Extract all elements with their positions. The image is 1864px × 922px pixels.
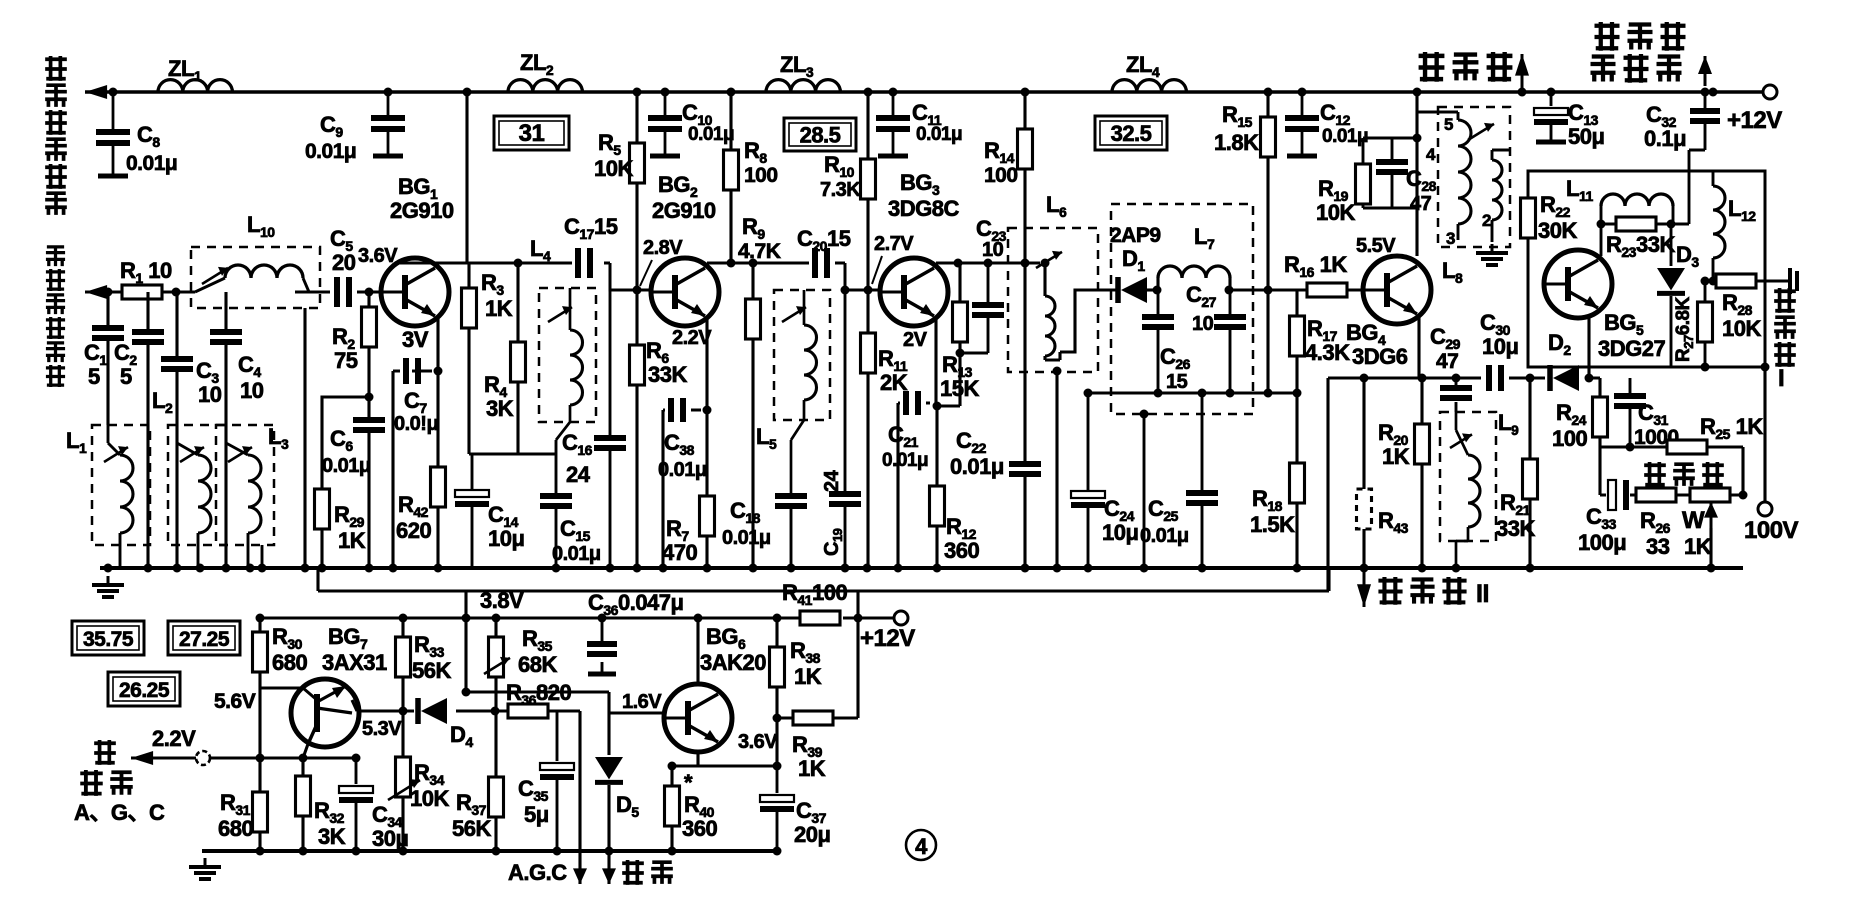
wire BG3 emitter (898, 318, 936, 568)
wire top feed x467 (465, 92, 468, 263)
wire base step BG3 (845, 263, 881, 290)
label 对比度 (contrast) (1644, 462, 1724, 487)
wire R34 column (401, 711, 404, 851)
wiper arrow W (1704, 502, 1718, 528)
wire BG4 emitter (1417, 314, 1420, 378)
label 脉冲 (pulse) (622, 860, 673, 885)
capacitor C8 (96, 92, 130, 176)
resistor R21 (1523, 459, 1538, 499)
capacitor C34 (339, 786, 373, 800)
wire x1328 drop (1326, 378, 1329, 591)
resistor R15 (1261, 117, 1276, 157)
resistor R27 (1698, 302, 1713, 342)
wire C14 column (471, 454, 474, 568)
svg-text:26.25: 26.25 (119, 679, 170, 702)
svg-text:4.7K: 4.7K (738, 240, 781, 263)
svg-text:0.01μ: 0.01μ (552, 543, 601, 565)
svg-text:20μ: 20μ (794, 822, 830, 847)
svg-text:680: 680 (218, 816, 253, 841)
svg-text:2: 2 (1482, 211, 1491, 230)
capacitor C31 (1614, 396, 1646, 406)
inductor ZL2 (508, 80, 582, 92)
diode D1 2AP9 (1118, 277, 1147, 303)
arrow sound output (1515, 54, 1529, 90)
wire R21 column (1528, 378, 1531, 568)
svg-text:10: 10 (240, 378, 264, 403)
wire BG6 emitter (672, 752, 777, 766)
wire bottom ground bus (202, 849, 780, 853)
wire BG6 collector (696, 618, 699, 685)
capacitor C9 (371, 92, 405, 156)
capacitor C37 (760, 795, 794, 809)
svg-text:1.8K: 1.8K (1214, 130, 1259, 155)
wire R2 column (367, 292, 370, 397)
svg-text:R16 1K: R16 1K (1284, 252, 1347, 280)
wire wiper to gnd (1709, 528, 1712, 568)
wire D5 column (607, 713, 610, 884)
wire R5 column (635, 92, 638, 290)
capacitor C6 (353, 420, 385, 430)
resistor R24 (1593, 397, 1608, 437)
svg-text:15: 15 (1166, 371, 1188, 393)
capacitor C35 (540, 763, 574, 777)
wire R29 branch (322, 397, 369, 489)
transistor BG7 3AX31 (291, 679, 359, 747)
capacitor C2 (132, 332, 164, 342)
wire C34 column (355, 758, 358, 851)
svg-text:620: 620 (396, 518, 431, 543)
wire BG7 collector (352, 700, 580, 711)
arrow AGC (573, 858, 587, 884)
svg-text:2G910: 2G910 (390, 198, 454, 223)
frequency box 32.5 (1095, 116, 1167, 150)
resistor R36 (508, 704, 548, 718)
arrow to sync II (1357, 569, 1371, 607)
svg-text:2V: 2V (903, 329, 928, 351)
resistor R35 (489, 637, 504, 677)
inductor L11 (1601, 194, 1673, 206)
wire R10 column (866, 92, 869, 290)
capacitor C33 plates (1608, 480, 1626, 510)
svg-text:33K: 33K (1496, 516, 1535, 541)
diode D3 (1657, 268, 1685, 293)
svg-text:20: 20 (332, 250, 356, 275)
capacitor C24 (1071, 491, 1105, 505)
resistor R9 (746, 299, 761, 339)
wire C16 column (609, 290, 612, 568)
svg-text:0.0!μ: 0.0!μ (394, 413, 438, 435)
wire top +12V bus (85, 90, 1766, 93)
svg-text:24: 24 (566, 462, 591, 487)
wire R11 column (866, 290, 869, 568)
wire AGC out (131, 756, 356, 759)
svg-text:10μ: 10μ (1482, 334, 1518, 359)
capacitor C27 (1214, 317, 1246, 327)
shield box L5 (774, 290, 830, 420)
wire 12V drop x858 (856, 591, 859, 618)
capacitor C25 (1186, 493, 1218, 503)
svg-text:I: I (1778, 365, 1784, 392)
capacitor C36 (587, 644, 617, 654)
wire R18 column (1295, 393, 1298, 568)
trimmer L6 (1036, 251, 1062, 268)
svg-text:10: 10 (1192, 313, 1214, 335)
svg-text:33: 33 (1646, 534, 1670, 559)
wire BG5 emitter (1587, 317, 1590, 378)
wire R14 column (1023, 92, 1026, 568)
terminal 100V (1758, 502, 1772, 516)
capacitor C26 (1142, 317, 1174, 327)
inductor L12 (1713, 186, 1725, 258)
wire C26 column (1157, 290, 1160, 393)
resistor R26 (1636, 488, 1676, 502)
svg-text:0.01μ: 0.01μ (1322, 126, 1368, 147)
trimmer L10 (202, 267, 228, 284)
svg-text:50μ: 50μ (1568, 124, 1604, 149)
inductor ZL3 (766, 80, 840, 92)
svg-text:10: 10 (198, 382, 222, 407)
wire L8 pin3 lead (1457, 224, 1460, 240)
shield box L2 (168, 425, 226, 545)
wire R35 column (494, 618, 497, 711)
resistor R14 (1018, 129, 1033, 169)
svg-text:1K: 1K (485, 296, 513, 321)
resistor R23 (1616, 217, 1656, 231)
resistor R34 (396, 757, 411, 797)
wire R17 column (1295, 290, 1298, 393)
resistor R8 (724, 150, 739, 190)
resistor R11 (861, 333, 876, 373)
capacitor C15 (540, 496, 572, 506)
wire L7 ends (1158, 278, 1230, 290)
trimmer L5 (782, 306, 806, 322)
resistor R19 (1356, 164, 1371, 204)
capacitor C17 (578, 248, 590, 278)
trimmer L4 (548, 306, 572, 322)
wire emitter net BG1 (469, 452, 556, 455)
wire D3 column (1670, 224, 1673, 367)
wire C28 branch (1391, 138, 1394, 208)
svg-text:0.01μ: 0.01μ (1140, 525, 1189, 547)
wire L10 cold end (303, 308, 306, 568)
capacitor C4 (210, 332, 242, 342)
resistor R10 (861, 159, 876, 199)
svg-text:2G910: 2G910 (652, 198, 716, 223)
svg-text:10μ: 10μ (488, 526, 524, 551)
capacitor C12 (1285, 92, 1319, 156)
resistor R16 (1307, 283, 1347, 297)
junction dots mid networks (365, 134, 1770, 697)
label 管阴极 (CRT cathode) row2 (1591, 54, 1682, 83)
resistor R41 (800, 611, 840, 625)
resistor R25 (1667, 440, 1707, 454)
capacitor C7 (406, 358, 418, 384)
wire BG1 collector (400, 263, 610, 268)
trimmer L2 (180, 446, 204, 462)
wire R42 column (436, 371, 439, 568)
wire C23 column (960, 263, 988, 353)
svg-text:R2333K: R2333K (1606, 232, 1675, 260)
svg-text:R1 10: R1 10 (120, 258, 172, 286)
svg-text:2AP9: 2AP9 (1110, 224, 1161, 247)
capacitor C10 (648, 92, 682, 156)
svg-text:4: 4 (1426, 145, 1436, 164)
inductor L3 (248, 455, 261, 533)
svg-text:100μ: 100μ (1578, 530, 1626, 555)
svg-text:5: 5 (88, 364, 100, 389)
wire R30 column (260, 618, 303, 688)
wire BG3 collector (936, 263, 1040, 268)
capacitor C28 (1376, 162, 1408, 172)
wire R8 column (729, 92, 732, 263)
svg-text:360: 360 (944, 538, 979, 563)
wire C31 column (1629, 378, 1632, 447)
wire L6 routing (1045, 263, 1116, 360)
svg-text:47: 47 (1436, 350, 1458, 373)
capacitor C32 (1690, 111, 1720, 121)
svg-text:10: 10 (982, 239, 1004, 261)
arrow pulse (602, 858, 616, 884)
svg-text:68K: 68K (518, 652, 557, 677)
wire C5 to base (357, 291, 381, 294)
resistor R40 (665, 786, 680, 826)
junction dots signal/base wires (104, 259, 1273, 297)
trimmer L1 (104, 446, 128, 462)
wire R27 column (1704, 281, 1707, 367)
resistor R6 (630, 345, 645, 385)
wire contrast row2 (1600, 493, 1743, 496)
wire BG6 base (466, 692, 664, 713)
wire R6 column (635, 290, 638, 568)
wire R15 column (1266, 92, 1269, 393)
wire C24 column (1087, 393, 1090, 568)
capacitor C16 (594, 438, 626, 448)
junction dots bottom section (256, 614, 782, 856)
wire C35 column (556, 711, 559, 851)
svg-text:0.01μ: 0.01μ (688, 124, 734, 145)
block frame BG5 (1528, 171, 1765, 367)
wire C36 column (601, 618, 604, 672)
wire C1 column (106, 292, 109, 425)
capacitor C20 (815, 248, 827, 278)
wire R20 column (1420, 378, 1423, 568)
inductor L6 (1045, 296, 1055, 356)
wire L8 pin5 lead (1417, 112, 1458, 120)
wire shield stub (1143, 414, 1146, 568)
transistor BG5 3DG27 (1544, 250, 1612, 318)
svg-text:100: 100 (984, 164, 1018, 187)
svg-text:0.01μ: 0.01μ (658, 459, 707, 481)
inductor L7 (1158, 266, 1230, 278)
transistor BG2 2G910 (651, 258, 719, 326)
svg-text:3AK20: 3AK20 (700, 650, 766, 675)
wire bottom +12V rail (260, 617, 894, 620)
resistor R22 (1521, 198, 1536, 238)
resistor R30 (253, 632, 268, 672)
junction dots ground bus (104, 564, 1716, 573)
potentiometer W (1690, 488, 1730, 502)
capacitor C14 (455, 490, 489, 504)
svg-text:0.01μ: 0.01μ (322, 455, 371, 477)
wire C29 column (1455, 378, 1458, 412)
svg-text:0.1μ: 0.1μ (1644, 126, 1686, 151)
wire R28 row (1705, 280, 1790, 283)
svg-text:W: W (1682, 507, 1705, 534)
frequency box 27.25 (168, 621, 240, 655)
svg-text:R36820: R36820 (506, 680, 571, 708)
wire base step BG2 (610, 263, 652, 290)
svg-text:1K: 1K (338, 528, 366, 553)
wire D1 to L7 (1146, 288, 1158, 291)
svg-text:0.01μ: 0.01μ (882, 450, 928, 471)
svg-text:3.6V: 3.6V (738, 731, 778, 753)
svg-text:24: 24 (821, 469, 843, 492)
svg-text:R276.8K: R276.8K (1673, 296, 1696, 362)
shield box L4 (539, 288, 596, 422)
inductor L2 (198, 455, 211, 533)
svg-text:3: 3 (1446, 229, 1455, 248)
shield box L9 (1440, 412, 1496, 541)
wire R39 row (777, 618, 858, 718)
wire C27 column (1229, 290, 1232, 393)
resistor R12 (930, 486, 945, 526)
label 至显象 (to CRT) row1 (1595, 22, 1686, 51)
resistor R33 (396, 637, 411, 677)
svg-text:1.5K: 1.5K (1250, 512, 1295, 537)
label 至同步 (to sync II) (1378, 577, 1466, 605)
T-bar C36 (588, 672, 616, 677)
svg-text:5.3V: 5.3V (362, 718, 402, 740)
wire C18 to gnd (790, 506, 793, 568)
svg-text:+12V: +12V (860, 625, 915, 652)
svg-text:4: 4 (915, 834, 928, 859)
svg-text:100: 100 (1552, 426, 1587, 451)
svg-text:3K: 3K (486, 396, 514, 421)
inductor L9 (1468, 455, 1480, 527)
svg-text:10K: 10K (594, 156, 633, 181)
frequency box 26.25 (108, 672, 180, 706)
capacitor C1 (92, 328, 124, 338)
svg-text:0.01μ: 0.01μ (950, 454, 1004, 479)
wire BG2 emitter (663, 318, 707, 568)
svg-text:0.01μ: 0.01μ (722, 527, 771, 549)
capacitor C23 (972, 305, 1004, 315)
svg-text:1K: 1K (798, 756, 826, 781)
svg-text:47: 47 (1410, 193, 1432, 215)
resistor R42 (431, 467, 446, 507)
wire L11 to BG5 collector (1600, 224, 1603, 256)
arrow to tuner supply (85, 85, 111, 99)
transistor BG1 2G910 (381, 258, 449, 326)
ground symbol left (92, 576, 124, 597)
wire sound output stub (1521, 90, 1524, 92)
resistor R1 (122, 285, 162, 299)
wire R43 column (1362, 378, 1365, 568)
transistor BG4 3DG6 (1363, 256, 1431, 324)
svg-text:10K: 10K (410, 786, 449, 811)
resistor R3 (462, 288, 477, 328)
wire C32 column (1689, 92, 1705, 224)
terminal +12V bottom (894, 611, 908, 625)
trimmer L9 (1450, 433, 1472, 448)
volt pointer 2.7V (872, 256, 882, 284)
trimmer L8 (1468, 123, 1494, 140)
wire L1 bottom (108, 425, 120, 568)
capacitor C29 (1440, 388, 1472, 398)
capacitor C3 (161, 359, 193, 369)
resistor R7 (700, 496, 715, 536)
shield box 2AP9 detector (1111, 204, 1253, 414)
wire L7 output (1230, 289, 1363, 292)
resistor R32 (296, 776, 311, 816)
wire C3 column (175, 292, 178, 568)
svg-text:5: 5 (1444, 115, 1453, 134)
wire C15 column (555, 440, 558, 568)
capacitor C21 (906, 391, 918, 415)
wire R31 column (258, 688, 261, 851)
resistor R28 (1716, 274, 1756, 288)
svg-text:3V: 3V (402, 327, 429, 352)
wire R9 column (751, 263, 754, 568)
wire line A (318, 568, 1329, 591)
svg-text:10K: 10K (1316, 200, 1355, 225)
resistor R13 (953, 302, 968, 342)
wire R4 column (516, 263, 519, 454)
trimmer arrow R34 (388, 779, 420, 800)
resistor R39 (793, 711, 833, 725)
svg-text:27.25: 27.25 (179, 628, 230, 651)
page number 4 circled (906, 830, 936, 860)
wire R3 column (467, 263, 470, 454)
ground L8 (1476, 244, 1508, 265)
diode D4 (418, 698, 447, 724)
junction dots top bus (109, 88, 1718, 97)
wire L5 leads (791, 290, 804, 494)
wire L2 bottom (177, 443, 198, 568)
wire C13 column (1550, 92, 1553, 106)
svg-text:5: 5 (120, 364, 132, 389)
svg-text:680: 680 (272, 650, 307, 675)
wire contrast row1 (1600, 447, 1743, 495)
label 至 (to) (94, 740, 116, 765)
terminal +12V right (1763, 85, 1777, 99)
wire tank bottom (1088, 392, 1297, 395)
wire C2 column (146, 292, 149, 568)
shield box L8 transformer (1438, 107, 1510, 247)
label 至高频头电源 (to tuner supply) (45, 56, 67, 215)
resistor R5 (630, 143, 645, 183)
wire C19 column (844, 290, 847, 568)
inductor L10 (225, 265, 303, 278)
svg-text:30K: 30K (1538, 218, 1577, 243)
svg-text:A、G、C: A、G、C (74, 800, 165, 825)
inductor L8 secondary (1492, 160, 1502, 220)
wire R19 branch (1363, 138, 1417, 208)
wire L10 winding link (195, 278, 309, 292)
resistor R29 (315, 489, 330, 529)
resistor R18 (1290, 463, 1305, 503)
resistor R31 (253, 792, 268, 832)
svg-text:0.01μ: 0.01μ (916, 124, 962, 145)
frequency box 31 (494, 116, 569, 150)
svg-text:2.8V: 2.8V (643, 237, 683, 259)
shield box L1 (92, 425, 150, 545)
svg-text:2.7V: 2.7V (874, 233, 914, 255)
svg-text:3DG8C: 3DG8C (888, 196, 959, 221)
wire 100V column (1763, 367, 1766, 502)
capacitor C30 (1489, 365, 1501, 391)
svg-text:4.3K: 4.3K (1305, 340, 1350, 365)
